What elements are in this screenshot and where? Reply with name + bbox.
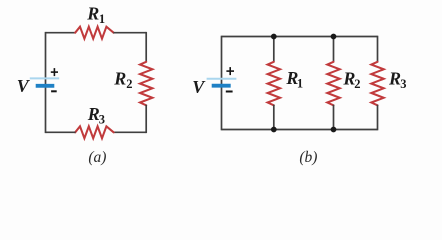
wire (b) bottom rail (222, 129, 378, 131)
wire (b) left segment (through battery) (221, 36, 223, 131)
wire (a) left segment (through battery) (45, 32, 47, 133)
junction node: branch 1 top (271, 34, 277, 40)
battery V (a) positive plate (long, light blue) (30, 77, 59, 79)
svg-text:R: R (86, 4, 99, 24)
battery V (a) plus sign (51, 68, 58, 76)
junction node: branch 2 bottom (331, 127, 337, 133)
svg-text:1: 1 (99, 12, 105, 26)
resistor R3 zigzag (b) (371, 62, 383, 106)
svg-text:V: V (17, 76, 31, 96)
resistor R1 zigzag (a) (75, 27, 113, 39)
wire (b) right upper segment (377, 36, 379, 63)
battery V (b) positive plate (long, light blue) (207, 78, 237, 80)
svg-text:3: 3 (99, 113, 105, 127)
wire (b) top rail (222, 36, 378, 38)
wire (a) top-left segment (46, 32, 76, 34)
battery V (b) minus sign (226, 91, 233, 93)
svg-text:2: 2 (126, 77, 132, 91)
wire (a) right upper segment (145, 32, 147, 62)
wire (b) branch-1 upper segment (273, 37, 275, 63)
wire (a) bottom-left segment (46, 131, 76, 133)
svg-text:1: 1 (297, 77, 303, 91)
wire (a) bottom-right segment (113, 131, 146, 133)
battery V (a) minus sign (51, 90, 57, 92)
battery V (a) negative plate (short, thick blue) (36, 84, 55, 88)
battery V (b) negative plate (short, thick blue) (212, 84, 231, 88)
resistor R2 zigzag (b) (327, 62, 339, 106)
svg-text:V: V (192, 77, 206, 97)
battery V (b) plus sign (226, 67, 234, 75)
resistor R2 zigzag (a) (140, 62, 152, 106)
junction node: branch 1 bottom (271, 127, 277, 133)
wire (b) right lower segment (377, 105, 379, 131)
svg-text:2: 2 (354, 77, 360, 91)
svg-text:R: R (388, 68, 401, 88)
wire (b) branch-2 lower segment (333, 105, 335, 130)
wire (b) branch-2 upper segment (333, 37, 335, 63)
svg-text:(a): (a) (88, 149, 106, 166)
svg-text:(b): (b) (299, 149, 317, 166)
resistor R3 zigzag (a) (75, 126, 113, 138)
junction node: branch 2 top (331, 34, 337, 40)
wire (b) branch-1 lower segment (273, 105, 275, 130)
resistor R1 zigzag (b) (268, 62, 280, 106)
wire (a) right lower segment (145, 105, 147, 133)
svg-text:3: 3 (400, 77, 406, 91)
svg-text:R: R (113, 68, 126, 88)
wire (a) top-right segment (113, 32, 146, 34)
